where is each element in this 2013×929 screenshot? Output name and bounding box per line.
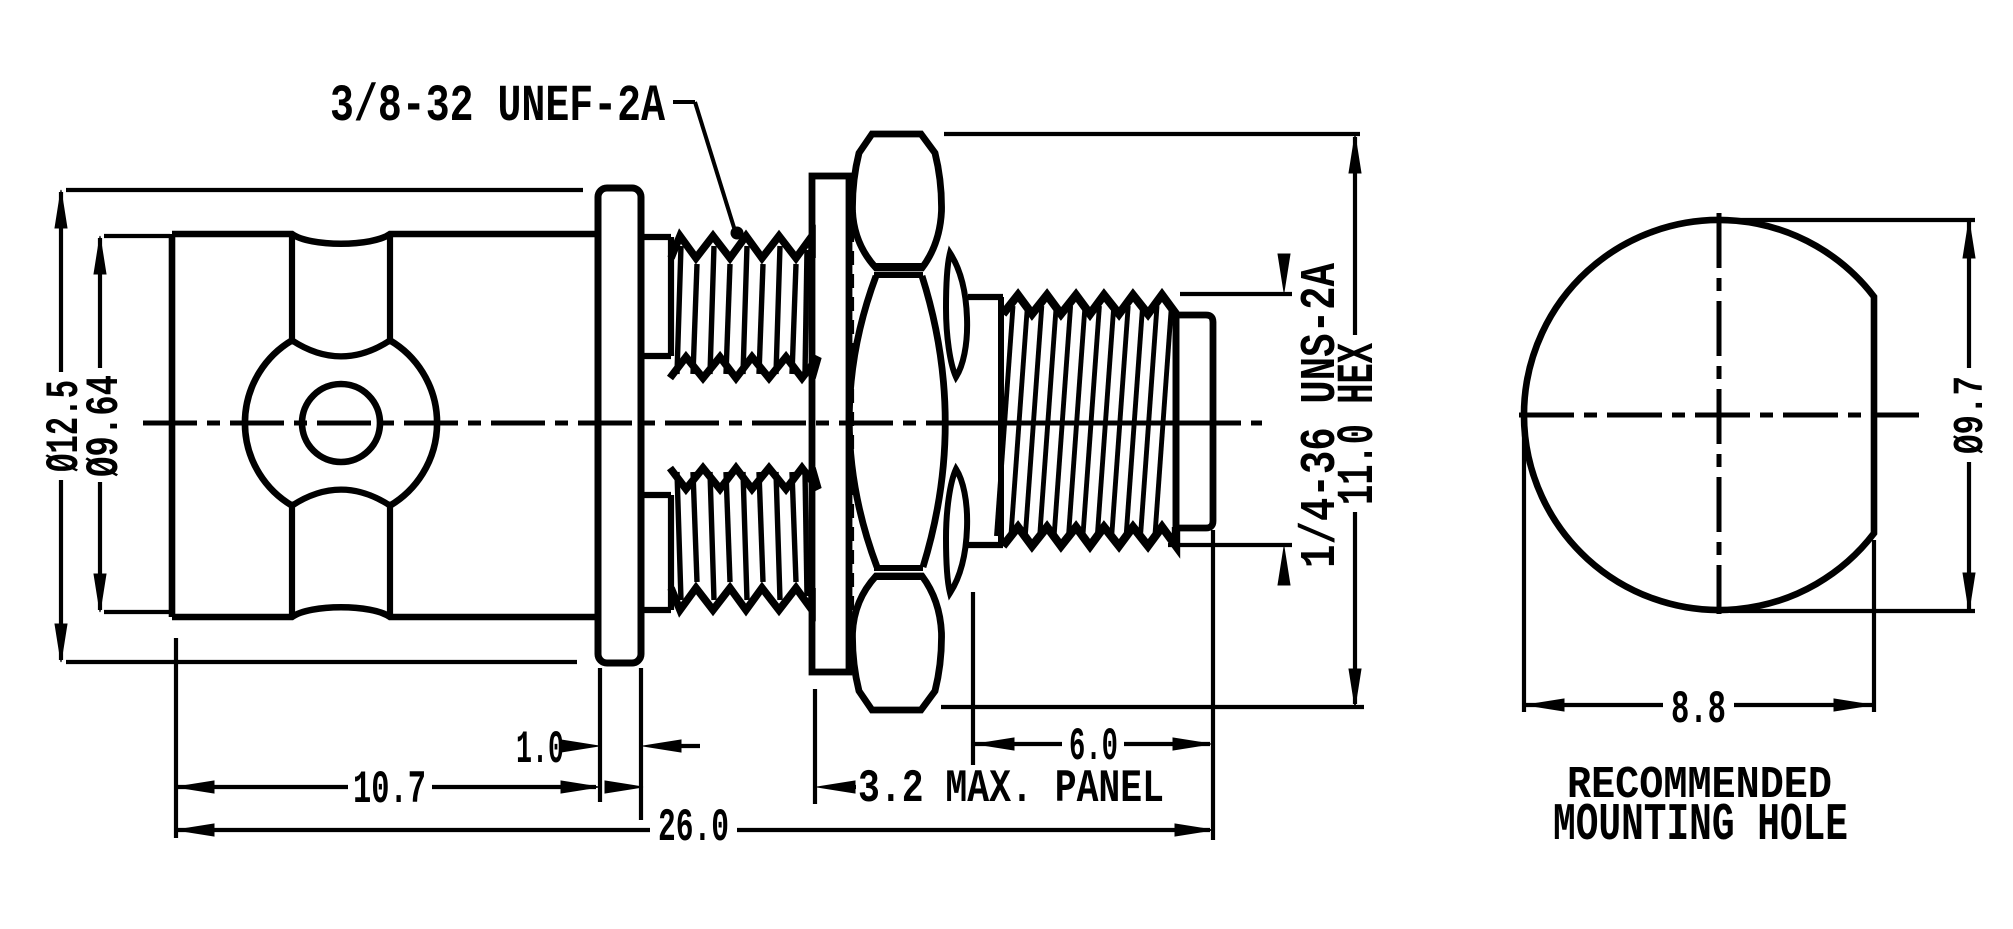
- dim Ø12.5 extension bottom: [66, 660, 577, 664]
- panel nut washer: [812, 176, 849, 672]
- label MOUNTING HOLE: [1553, 795, 1848, 855]
- dim Ø9.7 text: [1946, 376, 1995, 454]
- hex back corner sliver bottom: [946, 469, 967, 593]
- BNC body: [172, 234, 597, 617]
- svg-text:11.0 HEX: 11.0 HEX: [1329, 342, 1388, 505]
- dim 1.0 arrows: [561, 740, 700, 752]
- dim 11.0 line: [1349, 135, 1361, 707]
- dim 6.0 ext left: [971, 592, 975, 765]
- 3/8-32 UNEF-2A thread upper: [670, 236, 818, 378]
- dim 11.0 ext top: [944, 132, 1360, 136]
- boss circle (outer): [245, 340, 437, 505]
- dim 11.0 HEX text: [1329, 342, 1388, 505]
- slot arc top: [292, 340, 390, 356]
- dim Ø12.5 text: [39, 380, 91, 472]
- dim Ø12.5 extension top: [66, 188, 583, 192]
- dim Ø9.64 text: [79, 375, 131, 477]
- mounting hole vertical centerline: [1717, 213, 1722, 614]
- dim 8.8 text: [1671, 684, 1726, 736]
- dim 6.0 line: [975, 738, 1211, 750]
- dim 8.8 ext left: [1522, 432, 1526, 712]
- svg-text:3.2 MAX. PANEL: 3.2 MAX. PANEL: [858, 763, 1164, 815]
- dim 1.0 ext right: [639, 668, 643, 820]
- thread shoulder top: [641, 237, 671, 356]
- dim Ø12.5 line: [55, 190, 67, 662]
- svg-text:26.0: 26.0: [658, 802, 729, 854]
- SMA shank bottom: [968, 542, 1003, 548]
- SMA shank top: [968, 294, 1003, 300]
- dim Ø9.7 line: [1963, 220, 1975, 611]
- svg-text:1.0: 1.0: [516, 724, 564, 776]
- SMA end cap: [1176, 315, 1213, 528]
- hex nut waist 1: [874, 266, 923, 275]
- 1/4-36 UNS-2A thread: [997, 295, 1177, 546]
- dim 1/4-36 ext top: [1180, 292, 1292, 296]
- dim 26.0 line: [176, 824, 1213, 836]
- hex nut bottom lobe: [852, 576, 941, 710]
- centerline (main axis): [143, 421, 1262, 426]
- dim 3.2 arrow left: [600, 781, 643, 793]
- svg-text:10.7: 10.7: [353, 764, 426, 816]
- flange (1.0 thick): [598, 188, 641, 663]
- dim Ø9.7 ext bottom: [1730, 609, 1975, 613]
- dim 1/4-36 arrows: [1278, 254, 1290, 585]
- hex corner hidden line: [850, 182, 854, 662]
- dim 6.0 ext right: [1211, 530, 1215, 840]
- centerline solid across SMA: [972, 421, 1216, 426]
- center hole circle: [302, 384, 380, 462]
- hex nut top lobe: [852, 134, 941, 268]
- dim Ø9.64 line: [94, 236, 106, 612]
- svg-text:Ø9.64: Ø9.64: [79, 375, 131, 477]
- 3/8-32 UNEF-2A thread lower: [670, 468, 818, 610]
- dim 10.7 line: [176, 781, 599, 793]
- dim 8.8 ext right: [1872, 540, 1876, 712]
- mounting hole horizontal centerline: [1519, 413, 1919, 418]
- thread shoulder bottom: [641, 495, 671, 610]
- dim 1/4-36 ext bottom: [1168, 543, 1292, 547]
- dim 8.8 line: [1526, 699, 1872, 711]
- dim 1/4-36 text: [1293, 263, 1350, 568]
- mounting hole circle with flat: [1524, 220, 1874, 610]
- dim 3.2 arrow right: [817, 781, 856, 793]
- svg-text:8.8: 8.8: [1671, 684, 1726, 736]
- slot arc bottom: [292, 490, 390, 506]
- dim 6.0 text: [1069, 721, 1118, 773]
- dim Ø9.64 extension top: [104, 234, 170, 238]
- hex nut middle lens: [849, 276, 945, 567]
- label 3/8-32 UNEF-2A: [330, 77, 666, 136]
- dim 1.0 text: [516, 724, 564, 776]
- leader 3/8-32: [673, 102, 744, 240]
- SMA thread start face: [998, 297, 1004, 545]
- dim 11.0 ext bottom: [941, 705, 1364, 709]
- dim Ø9.7 ext top: [1730, 218, 1975, 222]
- dim 10.7 ext left: [174, 638, 178, 838]
- hex back corner sliver top: [946, 253, 967, 377]
- dim Ø9.64 extension bottom: [104, 610, 170, 614]
- label 3.2 MAX. PANEL: [858, 763, 1164, 815]
- svg-text:3/8-32 UNEF-2A: 3/8-32 UNEF-2A: [330, 77, 666, 136]
- bayonet channel right line: [387, 236, 393, 615]
- bayonet channel left line: [289, 236, 295, 615]
- hex nut waist 2: [874, 568, 923, 577]
- svg-text:MOUNTING HOLE: MOUNTING HOLE: [1553, 795, 1848, 855]
- svg-text:Ø9.7: Ø9.7: [1946, 376, 1995, 454]
- dim 26.0 text: [658, 802, 729, 854]
- dim 10.7 text: [353, 764, 426, 816]
- svg-text:6.0: 6.0: [1069, 721, 1118, 773]
- dim 3.2 ext: [813, 689, 817, 804]
- dim 1.0 ext left: [598, 668, 602, 802]
- label RECOMMENDED: [1567, 760, 1832, 811]
